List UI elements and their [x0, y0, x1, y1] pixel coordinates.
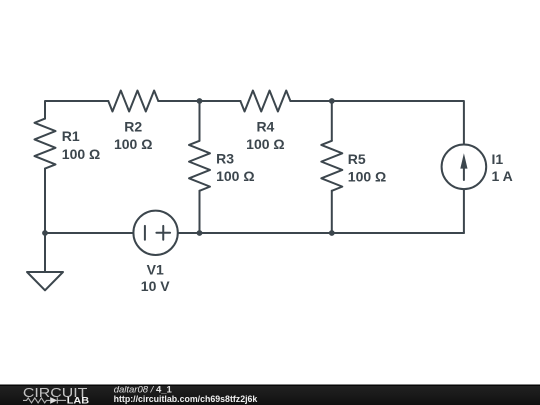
wire R5 branch bottom lead [331, 191, 333, 233]
resistor R2 [108, 91, 158, 112]
svg-text:100 Ω: 100 Ω [216, 168, 254, 184]
node dot bottom left [42, 230, 48, 236]
wire top rail right segment [290, 101, 464, 145]
svg-text:R3: R3 [216, 151, 234, 167]
svg-text:R2: R2 [124, 119, 142, 135]
svg-text:100 Ω: 100 Ω [246, 136, 284, 152]
wire ground stub [44, 233, 46, 272]
wire left below R1 [44, 169, 46, 233]
svg-text:R5: R5 [348, 151, 366, 167]
svg-text:I1: I1 [492, 151, 504, 167]
voltage source V1 [133, 211, 177, 255]
svg-text:http://circuitlab.com/ch69s8tf: http://circuitlab.com/ch69s8tfz2j6k [114, 394, 258, 404]
V1 plus sign [156, 226, 170, 240]
resistor R3 [189, 141, 210, 191]
resistor R4 [240, 91, 290, 112]
resistor R5 [321, 141, 342, 191]
V1 minus terminal bar [144, 226, 146, 240]
wire R5 branch top lead [331, 101, 333, 141]
wire top rail left segment [45, 101, 108, 119]
svg-text:LAB: LAB [67, 395, 89, 405]
I1 arrow head [460, 153, 467, 168]
node dot bottom R3 [197, 230, 203, 236]
logo diode triangle [50, 397, 57, 404]
node dot top R3 [197, 98, 203, 104]
wire bottom rail right segment [178, 232, 464, 234]
svg-text:R1: R1 [62, 128, 80, 144]
I1 arrow shaft [463, 160, 465, 180]
wire top rail middle segment [158, 100, 240, 102]
resistor R1 [35, 119, 56, 169]
svg-text:100 Ω: 100 Ω [348, 169, 386, 185]
logo resistor squiggle and diode [23, 397, 66, 403]
ground [27, 272, 63, 290]
svg-text:1 A: 1 A [492, 168, 513, 184]
wire R3 branch bottom lead [199, 191, 201, 233]
current source I1 [442, 145, 487, 190]
svg-text:10 V: 10 V [141, 278, 170, 294]
svg-text:100 Ω: 100 Ω [62, 146, 100, 162]
svg-text:100 Ω: 100 Ω [114, 136, 152, 152]
node dot top R5 [329, 98, 335, 104]
svg-text:V1: V1 [147, 262, 164, 278]
svg-text:R4: R4 [256, 119, 274, 135]
wire R3 branch top lead [199, 101, 201, 141]
wire bottom rail left segment [45, 232, 133, 234]
wire right below I1 [463, 189, 465, 233]
node dot bottom R5 [329, 230, 335, 236]
